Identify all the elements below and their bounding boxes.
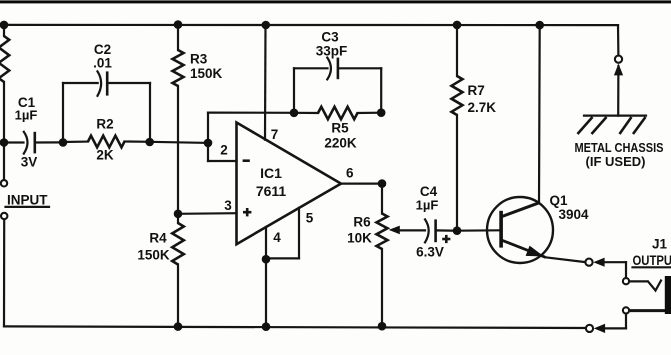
svg-text:C3: C3	[321, 29, 339, 44]
svg-text:R6: R6	[353, 215, 371, 230]
svg-text:150K: 150K	[137, 248, 170, 263]
svg-text:33pF: 33pF	[316, 43, 348, 58]
svg-text:220K: 220K	[324, 135, 357, 150]
svg-text:3V: 3V	[21, 155, 38, 170]
svg-text:3904: 3904	[558, 207, 589, 222]
svg-text:5: 5	[306, 211, 314, 226]
svg-text:.01: .01	[93, 56, 112, 71]
svg-text:R4: R4	[149, 231, 167, 246]
svg-text:1µF: 1µF	[15, 108, 38, 123]
svg-text:2.7K: 2.7K	[468, 100, 497, 115]
svg-text:IC1: IC1	[260, 165, 282, 181]
svg-text:2: 2	[220, 143, 228, 158]
svg-text:4: 4	[273, 230, 281, 245]
svg-text:7: 7	[271, 127, 279, 142]
svg-text:7611: 7611	[256, 183, 287, 199]
svg-text:6.3V: 6.3V	[416, 245, 444, 260]
svg-text:10K: 10K	[347, 231, 372, 246]
svg-text:R3: R3	[190, 52, 208, 67]
svg-text:1µF: 1µF	[416, 198, 439, 213]
svg-text:Q1: Q1	[549, 193, 568, 208]
svg-text:OUTPUT: OUTPUT	[633, 253, 671, 268]
svg-text:6: 6	[346, 166, 354, 181]
svg-text:METAL CHASSIS: METAL CHASSIS	[575, 140, 664, 155]
svg-text:J1: J1	[652, 237, 668, 252]
svg-text:R5: R5	[331, 120, 349, 135]
svg-text:INPUT: INPUT	[7, 193, 48, 208]
svg-text:2K: 2K	[96, 148, 114, 163]
svg-text:R7: R7	[468, 83, 485, 98]
svg-text:3: 3	[224, 198, 232, 213]
svg-text:R2: R2	[96, 117, 113, 132]
svg-text:150K: 150K	[190, 66, 223, 81]
svg-text:(IF USED): (IF USED)	[586, 154, 646, 169]
